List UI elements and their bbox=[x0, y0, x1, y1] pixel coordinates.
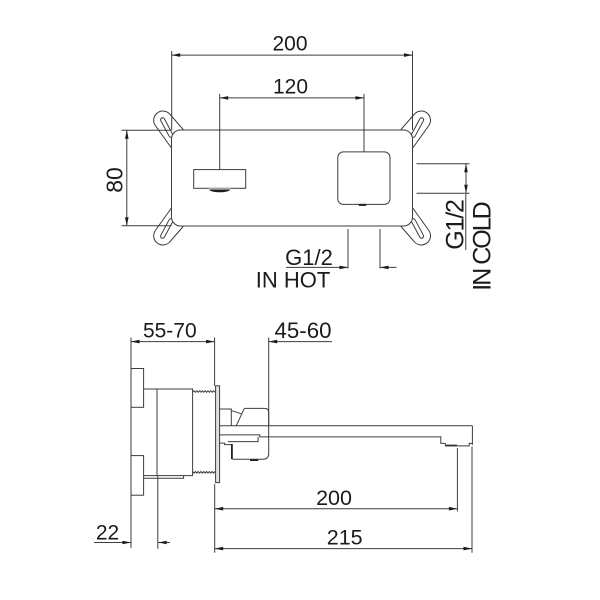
arrowhead left bbox=[220, 96, 229, 100]
bracket top tab bbox=[131, 369, 144, 408]
handle escutcheon square bbox=[338, 152, 390, 205]
dimension line bbox=[465, 164, 467, 194]
handle lower (side) bbox=[220, 443, 231, 445]
extension line right bbox=[412, 51, 414, 130]
escutcheon plate (side) bbox=[216, 386, 220, 483]
lower dark tick bbox=[250, 459, 258, 461]
svg-text:215: 215 bbox=[327, 526, 363, 550]
mounting tab top-left bbox=[154, 111, 184, 148]
dimension G1/2 hot inlet (below plate) bbox=[256, 229, 397, 293]
dimension 45-60 (plate to handle tip, side view) bbox=[269, 318, 332, 437]
mounting tab top-right bbox=[401, 111, 431, 148]
extension line bottom bbox=[417, 192, 470, 194]
spout (front view) bbox=[194, 170, 246, 189]
dimension 55-70 (wall to plate, side view) bbox=[131, 319, 215, 548]
arrowhead pointing right bbox=[122, 541, 130, 545]
svg-text:G1/2: G1/2 bbox=[442, 200, 470, 250]
extension line from spout bbox=[219, 94, 221, 170]
threaded nipple top bbox=[193, 391, 215, 393]
dimension 215 (spout tip reach, side view) bbox=[215, 447, 472, 553]
svg-text:200: 200 bbox=[316, 486, 352, 510]
dimension line bbox=[220, 97, 364, 99]
extension line top bbox=[417, 163, 470, 165]
dimension line bbox=[172, 54, 413, 56]
threaded nipple bottom bbox=[193, 472, 215, 474]
arrowhead right bbox=[449, 507, 458, 511]
dimension line bbox=[131, 341, 215, 343]
extension line at aerator bbox=[456, 448, 458, 512]
arrowhead left bbox=[131, 340, 140, 344]
svg-text:IN COLD: IN COLD bbox=[469, 202, 497, 290]
extension line top bbox=[122, 129, 172, 131]
dimension 200 (overall width, front view) bbox=[172, 33, 413, 131]
arrowhead left bbox=[215, 547, 224, 551]
svg-text:55-70: 55-70 bbox=[143, 319, 197, 342]
arrowhead left bbox=[215, 507, 224, 511]
mounting tab bottom-left bbox=[154, 208, 184, 245]
wall reference line bbox=[130, 338, 132, 549]
extension line left bbox=[171, 51, 173, 130]
arrowhead left bbox=[172, 53, 181, 57]
wall plate (front view) bbox=[172, 130, 413, 226]
leader right bbox=[158, 542, 170, 544]
dimension 200 (spout reach, side view) bbox=[215, 448, 458, 553]
extension line at spout tip bbox=[471, 447, 473, 553]
dimension 22 (bracket depth, side view) bbox=[94, 476, 170, 549]
aerator (front view) bbox=[208, 188, 231, 192]
extension line at plate bbox=[214, 338, 216, 386]
svg-text:IN HOT: IN HOT bbox=[256, 268, 331, 293]
extension line from handle bbox=[363, 94, 365, 152]
extension line at body edge bbox=[157, 476, 159, 549]
arrowhead pointing left bbox=[269, 340, 278, 344]
arrowhead right bbox=[206, 340, 215, 344]
svg-text:22: 22 bbox=[96, 522, 119, 545]
arrowhead bottom bbox=[125, 217, 129, 226]
leader / label underline left bbox=[286, 266, 348, 268]
handle upper (side) bbox=[220, 409, 232, 426]
arrowhead pointing left bbox=[158, 541, 167, 545]
arrowhead right bbox=[404, 53, 413, 57]
extension line at handle tip bbox=[268, 338, 270, 438]
mounting tab bottom-right bbox=[401, 208, 431, 245]
svg-text:80: 80 bbox=[102, 167, 128, 193]
leader line bbox=[269, 341, 332, 343]
extension line right bbox=[379, 229, 381, 269]
svg-text:45-60: 45-60 bbox=[274, 318, 331, 343]
arrowhead pointing left bbox=[380, 266, 389, 270]
dimension 120 (spout to handle spacing) bbox=[220, 75, 364, 169]
bracket bottom tab bbox=[131, 456, 144, 496]
extension line bottom bbox=[122, 225, 172, 227]
spout (side) bbox=[220, 425, 473, 427]
leader left bbox=[94, 542, 131, 544]
arrowhead top bbox=[125, 130, 129, 139]
extension line left bbox=[347, 229, 349, 269]
arrowhead down bbox=[464, 185, 468, 194]
svg-text:G1/2: G1/2 bbox=[285, 245, 333, 270]
dimension line bbox=[215, 508, 458, 510]
dimension 80 (plate height, front view) bbox=[102, 130, 172, 226]
dimension G1/2 cold inlet (right side) bbox=[417, 164, 497, 291]
aerator (side) bbox=[446, 445, 457, 447]
arrowhead pointing right bbox=[340, 266, 349, 270]
valve body bbox=[157, 389, 193, 476]
extension line at plate bbox=[214, 484, 216, 553]
leader right bbox=[380, 266, 397, 268]
arrowhead right bbox=[356, 96, 365, 100]
dimension line bbox=[126, 130, 128, 226]
dimension line bbox=[215, 548, 472, 550]
label underline bbox=[465, 194, 467, 250]
arrowhead right bbox=[464, 547, 473, 551]
arrowhead up bbox=[464, 164, 468, 173]
bottom slab bbox=[144, 476, 184, 479]
svg-text:120: 120 bbox=[273, 75, 308, 98]
svg-text:200: 200 bbox=[272, 33, 307, 56]
handle tick bbox=[359, 204, 367, 206]
